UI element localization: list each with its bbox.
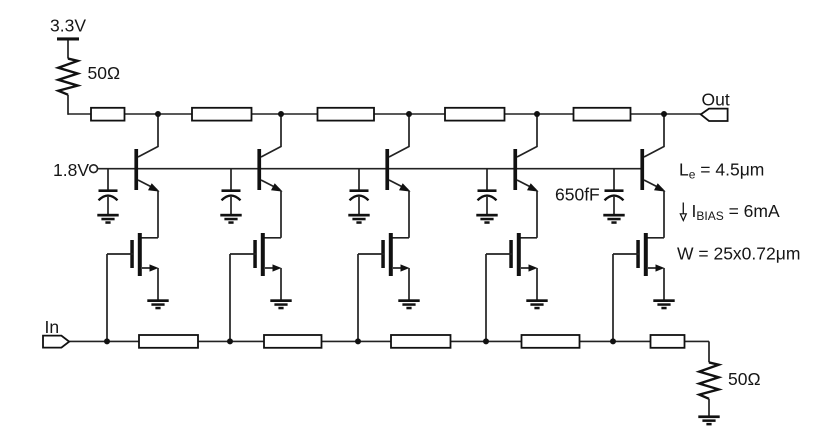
- svg-text:Le = 4.5μm: Le = 4.5μm: [679, 160, 764, 182]
- svg-text:IBIAS = 6mA: IBIAS = 6mA: [692, 201, 780, 223]
- svg-text:W = 25x0.72μm: W = 25x0.72μm: [677, 244, 800, 264]
- svg-text:1.8V: 1.8V: [53, 160, 89, 180]
- svg-text:Out: Out: [702, 90, 730, 110]
- svg-text:50Ω: 50Ω: [728, 369, 761, 389]
- svg-text:In: In: [45, 317, 60, 337]
- svg-text:50Ω: 50Ω: [88, 63, 121, 83]
- svg-text:650fF: 650fF: [555, 185, 600, 205]
- svg-text:3.3V: 3.3V: [50, 16, 86, 36]
